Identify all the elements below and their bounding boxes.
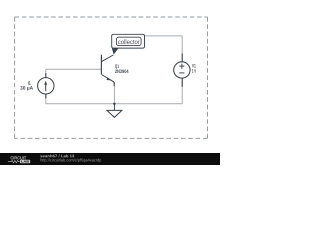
voltage source V1 (174, 54, 190, 87)
label I1 (28, 81, 31, 85)
current source I1 (38, 73, 54, 98)
label 1 V (192, 69, 196, 72)
node flag: collector (112, 34, 145, 54)
schematic dashed border (15, 17, 208, 138)
footer title (40, 154, 74, 157)
ground (107, 104, 122, 118)
junction node dot (113, 103, 115, 105)
wire: V1 top riser (181, 36, 183, 62)
wire: bottom rail from I1 to emitter node (46, 103, 115, 105)
transistor Q1 (101, 55, 114, 86)
label Q1 (115, 64, 119, 68)
footer bar (0, 153, 220, 165)
label collector (118, 39, 140, 44)
wire: I1 top stub to top rail corner (45, 69, 47, 77)
wire: emitter riser (113, 82, 115, 104)
label 2N3904 (115, 70, 128, 74)
label V1 (192, 64, 196, 67)
wire: top rail from I1 to Q1 base (46, 68, 102, 70)
footer url (40, 158, 101, 162)
wire: V1 bottom riser (181, 78, 183, 104)
logo LAB box (20, 160, 30, 164)
wire: top wire from collector flag to V1 (144, 35, 182, 37)
logo resistor zigzag (8, 160, 20, 162)
label 30 uA (20, 86, 33, 91)
logo LAB text (21, 160, 29, 162)
wire: bottom rail from emitter node to V1 (114, 103, 182, 105)
logo CIRCUIT (11, 156, 27, 159)
wire: I1 bottom stub to bottom rail (45, 94, 47, 104)
